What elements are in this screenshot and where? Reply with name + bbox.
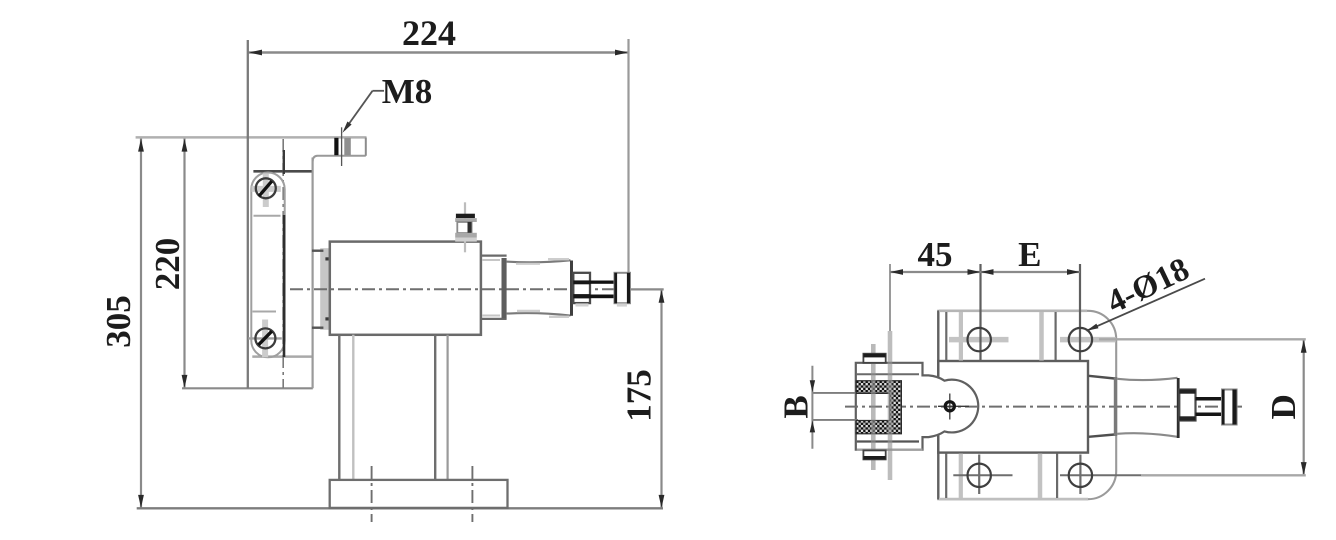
fitting stem dark edge (468, 222, 472, 233)
clevis inner top line (857, 373, 919, 375)
hex nut dark band bottom (573, 294, 590, 298)
clevis inner bottom line (857, 440, 919, 442)
clevis bottom tab (863, 450, 885, 459)
screw S2 cross h (248, 337, 282, 339)
hole BL (968, 464, 991, 487)
bracket slot grey line 1 (254, 215, 281, 217)
rear cap dark dot bottom (325, 317, 328, 320)
screw S1 slot (259, 181, 272, 196)
base centerline 1 (371, 466, 373, 522)
extension line bracket bottom (182, 387, 313, 389)
column left inner (352, 335, 354, 480)
screw S1 cross h (252, 186, 281, 192)
extension line 175 top (630, 288, 664, 290)
rod bottom edge (590, 295, 615, 299)
cone bottom light b (549, 316, 569, 318)
bracket centerline dark segment (283, 150, 285, 174)
rod top edge (590, 281, 615, 284)
extension 45 left (889, 264, 891, 331)
extension E right (1079, 264, 1081, 361)
collar top edge (481, 254, 507, 256)
hole BR cross v (1079, 455, 1081, 495)
top band vert light 1 (959, 312, 963, 361)
rv rod bottom edge (1196, 413, 1223, 417)
rv hex bottom band (1179, 416, 1195, 420)
cylinder body end view (938, 361, 1088, 453)
bracket right edge (312, 158, 314, 389)
cone top light b (548, 258, 569, 260)
bracket slot grey line 2 (253, 311, 277, 313)
label 4-O18 with leader (1087, 251, 1206, 331)
clevis grey bar B (888, 331, 893, 480)
screw S2 circle (255, 328, 275, 348)
hole BL cross h (953, 474, 1012, 476)
rv end nut dark left (1222, 390, 1225, 425)
rv collar bottom edge (1089, 435, 1115, 437)
svg-text:305: 305 (99, 295, 138, 348)
collar top light (482, 259, 500, 261)
bottom band vert light 1 (959, 454, 963, 499)
extension line top (136, 136, 367, 139)
clevis top tab (863, 354, 885, 363)
extension D top (1099, 338, 1306, 340)
dimension 220 (148, 139, 187, 389)
hole BR cross h (1060, 474, 1141, 476)
base plate (330, 480, 508, 508)
bracket fold grey line (252, 355, 311, 358)
dimension 305 left (99, 139, 144, 509)
clevis bottom tab dark band (863, 456, 885, 459)
extension 45 mid (979, 264, 981, 361)
end nut dark right (627, 273, 630, 303)
extension D bottom (1141, 474, 1306, 476)
bracket slot dark edge (283, 215, 286, 357)
knurl hatch block (856, 381, 901, 434)
svg-text:B: B (777, 395, 816, 418)
collar bottom light (482, 315, 500, 317)
svg-text:45: 45 (918, 235, 953, 274)
M8 boss centerline (341, 127, 343, 166)
rv collar dark ring (1114, 377, 1117, 436)
dimension D (1264, 340, 1307, 476)
hole TR (1069, 328, 1092, 351)
hole TL (968, 328, 991, 351)
fitting base (455, 233, 477, 238)
svg-text:E: E (1018, 235, 1041, 274)
rv end nut box (1222, 390, 1237, 425)
hex nut light bottom (576, 303, 589, 306)
clevis grey bar A (871, 344, 876, 470)
fitting stem (457, 222, 471, 233)
rear cap bottom tick (312, 327, 324, 329)
extension line 224 right (627, 39, 629, 273)
pin cross h (938, 405, 969, 407)
screw S2 cross v (262, 320, 268, 358)
M8 boss grey bar (344, 138, 351, 155)
rv cone top edge (1117, 378, 1177, 380)
fitting cap (456, 214, 475, 218)
rear cap dark dot top (325, 257, 328, 260)
svg-text:224: 224 (402, 13, 456, 53)
rv rod top edge (1196, 397, 1223, 401)
fitting flange (455, 218, 477, 222)
rod lines left (812, 393, 859, 420)
svg-text:220: 220 (148, 238, 187, 291)
svg-text:D: D (1264, 394, 1303, 419)
bracket tab bottom edge (313, 156, 366, 162)
hole BR (1069, 464, 1092, 487)
bottom band vert dark 1 (945, 454, 947, 499)
dimension 175 (620, 290, 665, 509)
column right outer (434, 335, 436, 480)
screw S1 circle (256, 178, 276, 198)
cone bottom light a (517, 310, 540, 312)
clevis top tab dark band (863, 354, 885, 358)
pin cross v (949, 394, 951, 420)
end nut box (615, 273, 631, 303)
clevis bottom outer grey (857, 449, 923, 451)
hole BL cross v (978, 455, 980, 495)
top band vert dark 2 (1054, 312, 1056, 360)
hole TR cross h (1060, 337, 1116, 343)
flange left edge dark (937, 311, 939, 499)
rear cap grey band (320, 248, 328, 330)
centerline left view (290, 288, 629, 290)
dimension 224 top (249, 13, 629, 55)
base centerline 2 (471, 466, 473, 522)
rv end nut dark right (1232, 390, 1236, 425)
rv cone bottom edge (1117, 433, 1177, 437)
svg-text:175: 175 (620, 369, 659, 422)
collar dark ring (502, 258, 507, 319)
bracket tab right edge (365, 138, 367, 156)
hole TL cross h (949, 337, 1009, 343)
svg-text:M8: M8 (382, 72, 433, 111)
bracket left edge (247, 40, 249, 388)
cone right edge (570, 261, 573, 316)
bracket slot outline (251, 173, 284, 358)
rv collar top edge (1089, 376, 1115, 379)
hex nut dark band top (573, 280, 590, 284)
rv cone right edge (1177, 378, 1180, 438)
column left outer (338, 335, 340, 480)
bracket centerline (282, 139, 284, 388)
bracket inner top edge (253, 170, 311, 173)
screw S1 cross v (263, 173, 269, 207)
hex nut box (573, 273, 590, 303)
top band vert dark 1 (945, 312, 947, 360)
end nut dark left (614, 273, 617, 303)
bottom band vert dark 2 (1056, 454, 1058, 499)
screw S2 slot (258, 331, 271, 345)
clevis outline (856, 363, 978, 450)
baseline bottom (137, 507, 663, 509)
cone top light a (516, 263, 540, 265)
dimension B (777, 366, 816, 449)
top band vert light 2 (1039, 312, 1044, 361)
flange bottom edge light (939, 498, 1088, 501)
column right inner (447, 335, 449, 480)
end nut light bottom (617, 303, 627, 306)
bottom band vert light 2 (1038, 454, 1043, 499)
rear cap top tick (312, 249, 324, 251)
centerline right view (845, 406, 1243, 408)
fitting centerline (464, 202, 466, 252)
rv hex box (1179, 390, 1195, 421)
flange top edge light (939, 309, 1087, 312)
dimension 45 and E (890, 235, 1080, 275)
fitting base light (455, 238, 477, 242)
flange plate (938, 311, 1116, 499)
cone top edge (507, 260, 571, 262)
cone bottom edge (507, 313, 571, 315)
label M8 with leader (343, 72, 433, 133)
cylinder body (330, 242, 481, 335)
M8 boss dark thread bar (334, 138, 338, 155)
rv hex top band (1179, 390, 1195, 394)
collar bottom edge (481, 318, 507, 320)
pin circle (945, 402, 954, 411)
